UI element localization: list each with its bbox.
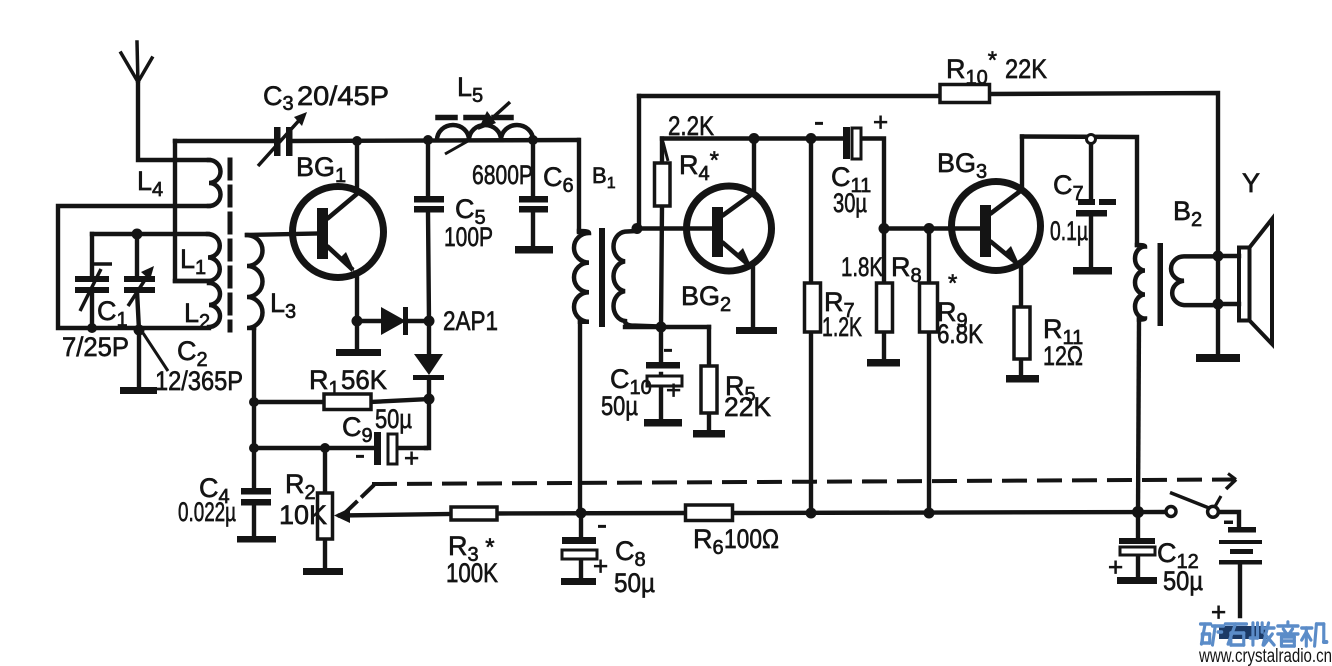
svg-text:-: -	[597, 508, 607, 541]
svg-text:10K: 10K	[279, 500, 327, 530]
svg-text:50µ: 50µ	[601, 391, 638, 421]
svg-text:56K: 56K	[341, 365, 387, 395]
svg-text:+: +	[593, 551, 608, 581]
svg-text:1.8K: 1.8K	[841, 252, 883, 282]
svg-text:7/25P: 7/25P	[62, 332, 129, 362]
svg-text:2.2K: 2.2K	[668, 111, 714, 141]
svg-text:-: -	[355, 438, 365, 471]
svg-text:*: *	[948, 270, 957, 297]
svg-text:Y: Y	[1242, 168, 1260, 198]
svg-text:+: +	[1108, 552, 1123, 582]
svg-text:20/45P: 20/45P	[297, 81, 389, 111]
svg-text:50µ: 50µ	[375, 404, 412, 434]
svg-text:12Ω: 12Ω	[1043, 341, 1083, 371]
svg-text:-: -	[814, 105, 824, 138]
svg-text:www.crystalradio.cn: www.crystalradio.cn	[1198, 646, 1332, 666]
svg-text:6800P: 6800P	[472, 160, 533, 190]
svg-text:2AP1: 2AP1	[443, 306, 498, 336]
svg-text:22K: 22K	[1005, 54, 1047, 84]
svg-text:+: +	[1211, 597, 1226, 627]
svg-text:+: +	[666, 375, 681, 405]
svg-text:1.2K: 1.2K	[822, 312, 862, 342]
svg-text:6.8K: 6.8K	[937, 319, 983, 349]
svg-text:12/365P: 12/365P	[155, 366, 243, 396]
svg-text:100K: 100K	[446, 558, 498, 588]
svg-text:0.1µ: 0.1µ	[1050, 216, 1088, 246]
svg-text:-: -	[663, 332, 673, 365]
svg-text:50µ: 50µ	[614, 568, 655, 598]
svg-text:30µ: 30µ	[833, 188, 867, 218]
svg-text:100Ω: 100Ω	[724, 524, 779, 554]
svg-text:50µ: 50µ	[1163, 566, 1203, 596]
svg-text:0.022µ: 0.022µ	[178, 497, 236, 527]
svg-text:100P: 100P	[444, 222, 493, 252]
svg-text:+: +	[873, 107, 888, 137]
svg-text:22K: 22K	[724, 392, 771, 422]
svg-text:+: +	[404, 443, 419, 473]
